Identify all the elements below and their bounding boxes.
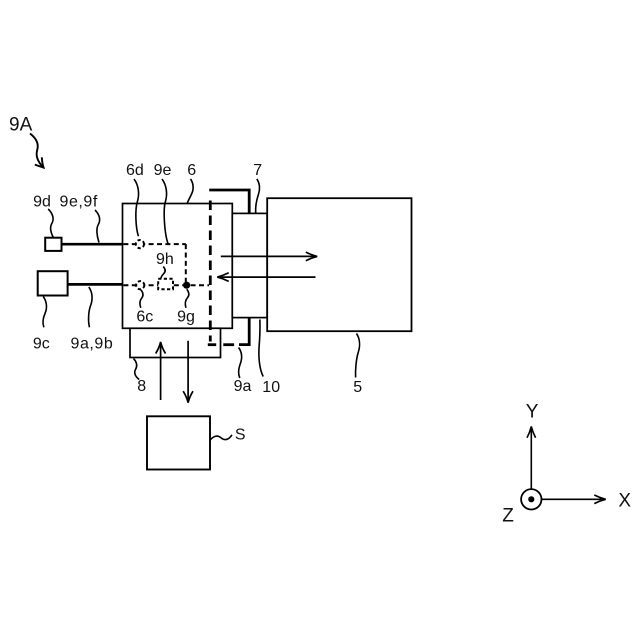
svg-text:6c: 6c <box>136 308 153 325</box>
svg-text:9d: 9d <box>33 193 51 210</box>
svg-text:Z: Z <box>502 505 514 526</box>
svg-text:9e,9f: 9e,9f <box>60 193 98 210</box>
svg-text:9A: 9A <box>9 115 33 136</box>
svg-text:9c: 9c <box>33 335 50 352</box>
svg-text:S: S <box>235 427 246 444</box>
svg-text:9g: 9g <box>177 308 195 325</box>
svg-text:9e: 9e <box>154 162 172 179</box>
svg-text:6d: 6d <box>126 162 144 179</box>
svg-text:Y: Y <box>526 402 539 423</box>
svg-text:10: 10 <box>262 379 280 396</box>
svg-text:9a,9b: 9a,9b <box>71 335 114 352</box>
svg-text:6: 6 <box>187 162 196 179</box>
svg-text:9a: 9a <box>234 378 252 395</box>
svg-text:9h: 9h <box>156 251 174 268</box>
svg-text:8: 8 <box>137 378 146 395</box>
svg-text:7: 7 <box>253 162 262 179</box>
svg-text:X: X <box>618 490 631 511</box>
svg-text:5: 5 <box>353 379 362 396</box>
